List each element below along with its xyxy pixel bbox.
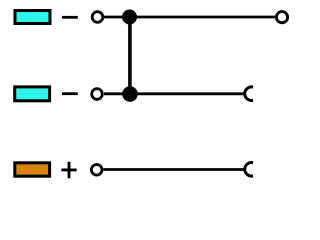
wire vertical bridge J1-J2 <box>128 17 132 94</box>
polarity label minus row 2 <box>62 92 78 95</box>
terminal contact (open circle) row 1 right <box>276 12 287 23</box>
terminal contact (open circle) row 2 left <box>92 89 103 100</box>
terminal block body (orange) row 3 <box>15 163 50 176</box>
polarity label minus row 1 <box>62 16 78 19</box>
terminal block body (cyan) row 2 <box>15 87 50 101</box>
wire row 2 <box>104 92 245 95</box>
node junction J1 <box>122 10 137 25</box>
wire row 3 <box>104 168 246 171</box>
socket contact (open arc) row 3 <box>245 163 253 177</box>
terminal contact (open circle) row 3 left <box>91 165 102 176</box>
wire row 1 <box>104 16 276 19</box>
polarity label plus row 3 <box>61 162 76 179</box>
terminal contact (open circle) row 1 left <box>92 12 103 23</box>
socket contact (open arc) row 2 <box>245 87 253 101</box>
terminal block body (cyan) row 1 <box>15 11 50 24</box>
node junction J2 <box>122 86 138 102</box>
